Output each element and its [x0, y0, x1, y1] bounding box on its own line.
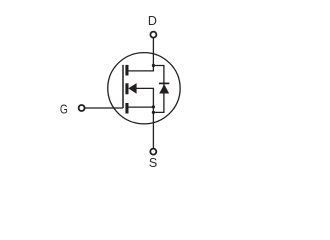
wire diode branch — [153, 66, 164, 113]
transistor body circle Q1 — [108, 53, 180, 124]
terminal S open circle — [150, 149, 156, 155]
source contact bar — [125, 103, 128, 114]
node junction dot source upper — [152, 105, 155, 108]
terminal G open circle — [79, 105, 85, 111]
drain contact bar — [125, 65, 128, 76]
wire drain lead — [152, 38, 154, 66]
wire body to source junction — [136, 88, 153, 107]
wire gate lead — [85, 107, 123, 109]
node junction dot drain — [152, 64, 155, 67]
body arrow (N-channel) — [128, 83, 136, 94]
body diode cathode bar — [159, 82, 169, 84]
svg-text:D: D — [148, 14, 157, 28]
gate line — [122, 65, 124, 108]
wire source bar to junction — [128, 106, 153, 108]
svg-text:G: G — [60, 102, 68, 116]
node junction dot source lower — [152, 111, 155, 114]
terminal D open circle — [150, 32, 156, 38]
svg-text:S: S — [149, 156, 157, 170]
wire source lead — [152, 107, 154, 149]
wire drain to top bar — [128, 66, 153, 71]
body contact bar — [125, 83, 128, 94]
body diode D1 triangle — [159, 84, 169, 93]
